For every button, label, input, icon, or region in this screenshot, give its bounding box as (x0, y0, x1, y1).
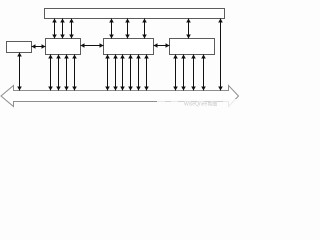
bus fade overlay bottom-right (157, 99, 240, 109)
wire W7 U1-U5 (188, 19, 190, 39)
block U2 left small box (7, 42, 32, 53)
wire W22 U5-bus c (193, 55, 195, 91)
wire W26 U4-U5 horizontal (154, 45, 170, 47)
bus B1 system bus double arrow (1, 86, 239, 107)
wire W14 U4-bus a (107, 55, 109, 91)
wire W25 U3-U4 horizontal (81, 45, 104, 47)
wire W6 U1-U4 c (144, 19, 146, 39)
wire W11 U3-bus b (58, 55, 60, 91)
wire W8 bus-U1 riser (220, 19, 222, 91)
wire W1 U1-U3 a (54, 19, 56, 39)
wire W9 U2-bus (19, 53, 21, 91)
bus bottom edge faint dashes (165, 101, 228, 103)
wire W10 U3-bus a (50, 55, 52, 91)
wire W23 U5-bus d (203, 55, 205, 91)
wire W4 U1-U4 a (111, 19, 113, 39)
wire W24 U2-U3 horizontal (32, 46, 46, 48)
wire W2 U1-U3 b (62, 19, 64, 39)
block U5 (170, 39, 215, 55)
wire W5 U1-U4 b (127, 19, 129, 39)
wire W21 U5-bus b (183, 55, 185, 91)
svg-text:WiseQnee看图: WiseQnee看图 (184, 101, 217, 108)
wire W13 U3-bus d (74, 55, 76, 91)
wire W17 U4-bus d (130, 55, 132, 91)
wire W18 U4-bus e (138, 55, 140, 91)
wire W16 U4-bus c (122, 55, 124, 91)
wire W3 U1-U3 c (71, 19, 73, 39)
wire W20 U5-bus a (175, 55, 177, 91)
block U3 (46, 39, 81, 55)
wire W15 U4-bus b (115, 55, 117, 91)
wire W12 U3-bus c (66, 55, 68, 91)
block U4 (104, 39, 154, 55)
block U1 top control box (45, 9, 225, 19)
wire W19 U4-bus f (146, 55, 148, 91)
